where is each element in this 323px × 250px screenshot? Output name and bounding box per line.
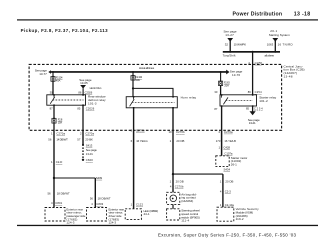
svg-text:S413: S413 <box>86 144 93 148</box>
exterior rear view mirror passenger side box <box>45 208 65 222</box>
svg-text:101-3: 101-3 <box>88 101 97 105</box>
svg-text:1: 1 <box>170 139 172 143</box>
svg-text:C270b: C270b <box>136 128 145 132</box>
horn 13832 box <box>125 209 141 220</box>
junction dots on buses <box>52 71 54 73</box>
svg-text:(14A664): (14A664) <box>181 199 193 203</box>
wire circuit 57 20 BK with splice S413 to C600 <box>82 130 84 144</box>
svg-text:C270b: C270b <box>176 130 185 134</box>
svg-text:87: 87 <box>214 107 217 111</box>
svg-text:85: 85 <box>77 107 80 111</box>
svg-text:56: 56 <box>90 196 94 200</box>
svg-text:13-01: 13-01 <box>86 152 93 156</box>
wire drop to starter relay coil <box>252 52 254 95</box>
svg-text:Excursion, Super Duty Series F: Excursion, Super Duty Series F-250, F-35… <box>158 233 297 238</box>
svg-text:13-48: 13-48 <box>284 75 293 79</box>
svg-text:111-4: 111-4 <box>181 219 189 223</box>
svg-text:1: 1 <box>218 145 220 149</box>
relay R2 horn relay <box>126 96 177 108</box>
svg-text:C270a: C270a <box>224 130 233 134</box>
fuse F2.113 <box>131 73 135 98</box>
svg-text:16 TN/RD: 16 TN/RD <box>278 42 293 46</box>
svg-text:C600: C600 <box>86 158 93 162</box>
svg-text:Hot in Run: Hot in Run <box>90 86 102 90</box>
svg-text:124-3: 124-3 <box>109 221 117 225</box>
CJB dashed box <box>29 64 282 130</box>
exterior rear view mirror driver side box <box>87 208 107 222</box>
svg-text:20 DB: 20 DB <box>176 180 184 184</box>
svg-text:13-05: 13-05 <box>80 81 88 85</box>
svg-text:C803: C803 <box>96 202 103 206</box>
svg-text:C428: C428 <box>223 145 230 149</box>
hot in run feed arrow <box>80 85 86 89</box>
svg-text:1: 1 <box>131 203 133 207</box>
wire circuit 1 20 DB to air bag sliding contact <box>172 130 174 192</box>
R1 bottom-right wire <box>82 105 84 130</box>
svg-text:13-27: 13-27 <box>225 33 234 37</box>
header rule <box>17 19 318 20</box>
svg-text:1: 1 <box>51 160 53 164</box>
svg-text:20A: 20A <box>224 83 229 87</box>
bus external (hot feed bus top right) <box>223 51 280 53</box>
svg-text:32: 32 <box>225 42 229 46</box>
T junction feeding horn relay pins <box>133 87 174 89</box>
feed1 arrowhead <box>227 38 233 42</box>
svg-text:1: 1 <box>220 203 222 207</box>
R3 bottom-right wire + see page arrow <box>252 106 254 112</box>
air bag sliding contact <box>167 192 180 204</box>
svg-text:C270a: C270a <box>85 131 94 135</box>
R3 bottom-left wire <box>221 106 223 130</box>
svg-text:all others: all others <box>265 53 275 57</box>
svg-text:4: 4 <box>170 184 172 188</box>
wire circuit 6 16 YE/LG to horn <box>133 130 135 208</box>
svg-text:87: 87 <box>50 107 53 111</box>
wire feed1 <box>229 41 231 52</box>
svg-text:1: 1 <box>220 180 222 184</box>
svg-text:173: 173 <box>216 139 221 143</box>
svg-text:C175f: C175f <box>255 61 262 65</box>
svg-text:30: 30 <box>214 90 217 94</box>
vehicle security module VSM box <box>217 207 234 221</box>
fuse F2.8 15A <box>52 118 56 123</box>
splice S409 <box>53 177 55 179</box>
svg-text:13-21: 13-21 <box>249 121 256 125</box>
svg-text:Starting System: Starting System <box>269 33 291 37</box>
svg-text:13-77: 13-77 <box>39 72 47 76</box>
fuse F2.104 <box>51 73 55 96</box>
svg-text:10: 10 <box>168 130 172 134</box>
svg-text:20 DB: 20 DB <box>225 180 233 184</box>
svg-text:16 YE/LG: 16 YE/LG <box>136 139 148 143</box>
svg-text:56: 56 <box>47 192 51 196</box>
wire R1 pin 87 to fuse F2.8 <box>53 105 55 118</box>
svg-text:C2026: C2026 <box>86 107 95 111</box>
bus left arrowhead <box>48 70 51 74</box>
svg-text:S409: S409 <box>96 176 103 180</box>
svg-text:C270b: C270b <box>175 184 184 188</box>
bus right arrowhead <box>226 70 229 75</box>
svg-text:8: 8 <box>131 128 133 132</box>
svg-text:13-76: 13-76 <box>232 73 240 77</box>
svg-text:C254: C254 <box>255 90 263 94</box>
wire circuit 56 14 DB/WT to splice S409 <box>53 130 55 178</box>
svg-text:13 -18: 13 -18 <box>294 11 310 17</box>
relay R1 rear window defrost relay 101-3 <box>47 94 86 106</box>
svg-text:C2-D: C2-D <box>56 160 63 164</box>
svg-text:1063: 1063 <box>267 42 274 46</box>
svg-text:119-2: 119-2 <box>236 217 244 221</box>
svg-text:Power Distribution: Power Distribution <box>233 11 283 17</box>
svg-text:2: 2 <box>80 131 82 135</box>
svg-text:1: 1 <box>51 131 53 135</box>
wire circuit 173 to starter motor <box>221 130 223 155</box>
svg-text:101-2: 101-2 <box>259 99 268 103</box>
svg-text:20 BK: 20 BK <box>85 137 93 141</box>
wire R2 pin 85 to connector C270b <box>172 108 174 131</box>
relay R3 starter relay 101-2 <box>220 94 257 107</box>
svg-text:4: 4 <box>220 189 222 193</box>
wire R2 pin 87 to connector C270b <box>133 108 135 131</box>
svg-text:Pickup, F2.8, F2.37, F2.104, F: Pickup, F2.8, F2.37, F2.104, F2.113 <box>21 28 109 33</box>
svg-text:44-1: 44-1 <box>144 212 150 216</box>
svg-text:18 DB/WT: 18 DB/WT <box>57 192 70 196</box>
wire feed2 <box>274 41 276 52</box>
footer rule <box>17 225 318 226</box>
svg-text:56: 56 <box>48 137 52 141</box>
svg-text:C270a: C270a <box>56 131 65 135</box>
svg-text:Hot at all times: Hot at all times <box>139 66 155 70</box>
svg-text:26-1: 26-1 <box>231 163 237 167</box>
steering wheel switch box <box>167 209 180 220</box>
svg-text:18 DB/WT: 18 DB/WT <box>98 196 111 200</box>
svg-text:86: 86 <box>78 90 81 94</box>
svg-text:124-3: 124-3 <box>66 221 74 225</box>
svg-text:S434: S434 <box>224 167 231 171</box>
svg-text:14 DB/WT: 14 DB/WT <box>56 137 68 141</box>
svg-text:86: 86 <box>248 90 251 94</box>
splice S434 branch <box>172 173 174 175</box>
svg-text:C254: C254 <box>254 107 263 111</box>
fuse F2.63 <box>219 73 223 96</box>
bus internal CJB (hot at all times) <box>51 71 227 73</box>
svg-text:C2-10a: C2-10a <box>225 203 234 207</box>
svg-text:15A: 15A <box>58 120 63 124</box>
svg-text:30: 30 <box>50 91 53 95</box>
feed2 arrowhead <box>272 38 278 42</box>
svg-text:4: 4 <box>51 201 53 205</box>
svg-text:40A: 40A <box>56 79 61 83</box>
svg-text:20 DB: 20 DB <box>176 139 184 143</box>
svg-text:C122: C122 <box>136 203 143 207</box>
svg-text:10 WH/PK: 10 WH/PK <box>234 42 247 46</box>
svg-text:4: 4 <box>91 202 93 206</box>
svg-text:85: 85 <box>246 107 249 111</box>
svg-text:6: 6 <box>131 139 133 143</box>
starter motor 11002 box <box>216 156 229 167</box>
svg-text:1: 1 <box>170 180 172 184</box>
svg-text:C801: C801 <box>55 201 62 205</box>
svg-text:Torq/Shift: Torq/Shift <box>223 53 236 57</box>
svg-text:10A: 10A <box>136 78 141 82</box>
svg-text:C2-3: C2-3 <box>225 189 231 193</box>
svg-text:16 YE/LB: 16 YE/LB <box>224 139 236 143</box>
svg-text:Horn relay: Horn relay <box>181 95 197 99</box>
svg-text:57: 57 <box>77 137 81 141</box>
